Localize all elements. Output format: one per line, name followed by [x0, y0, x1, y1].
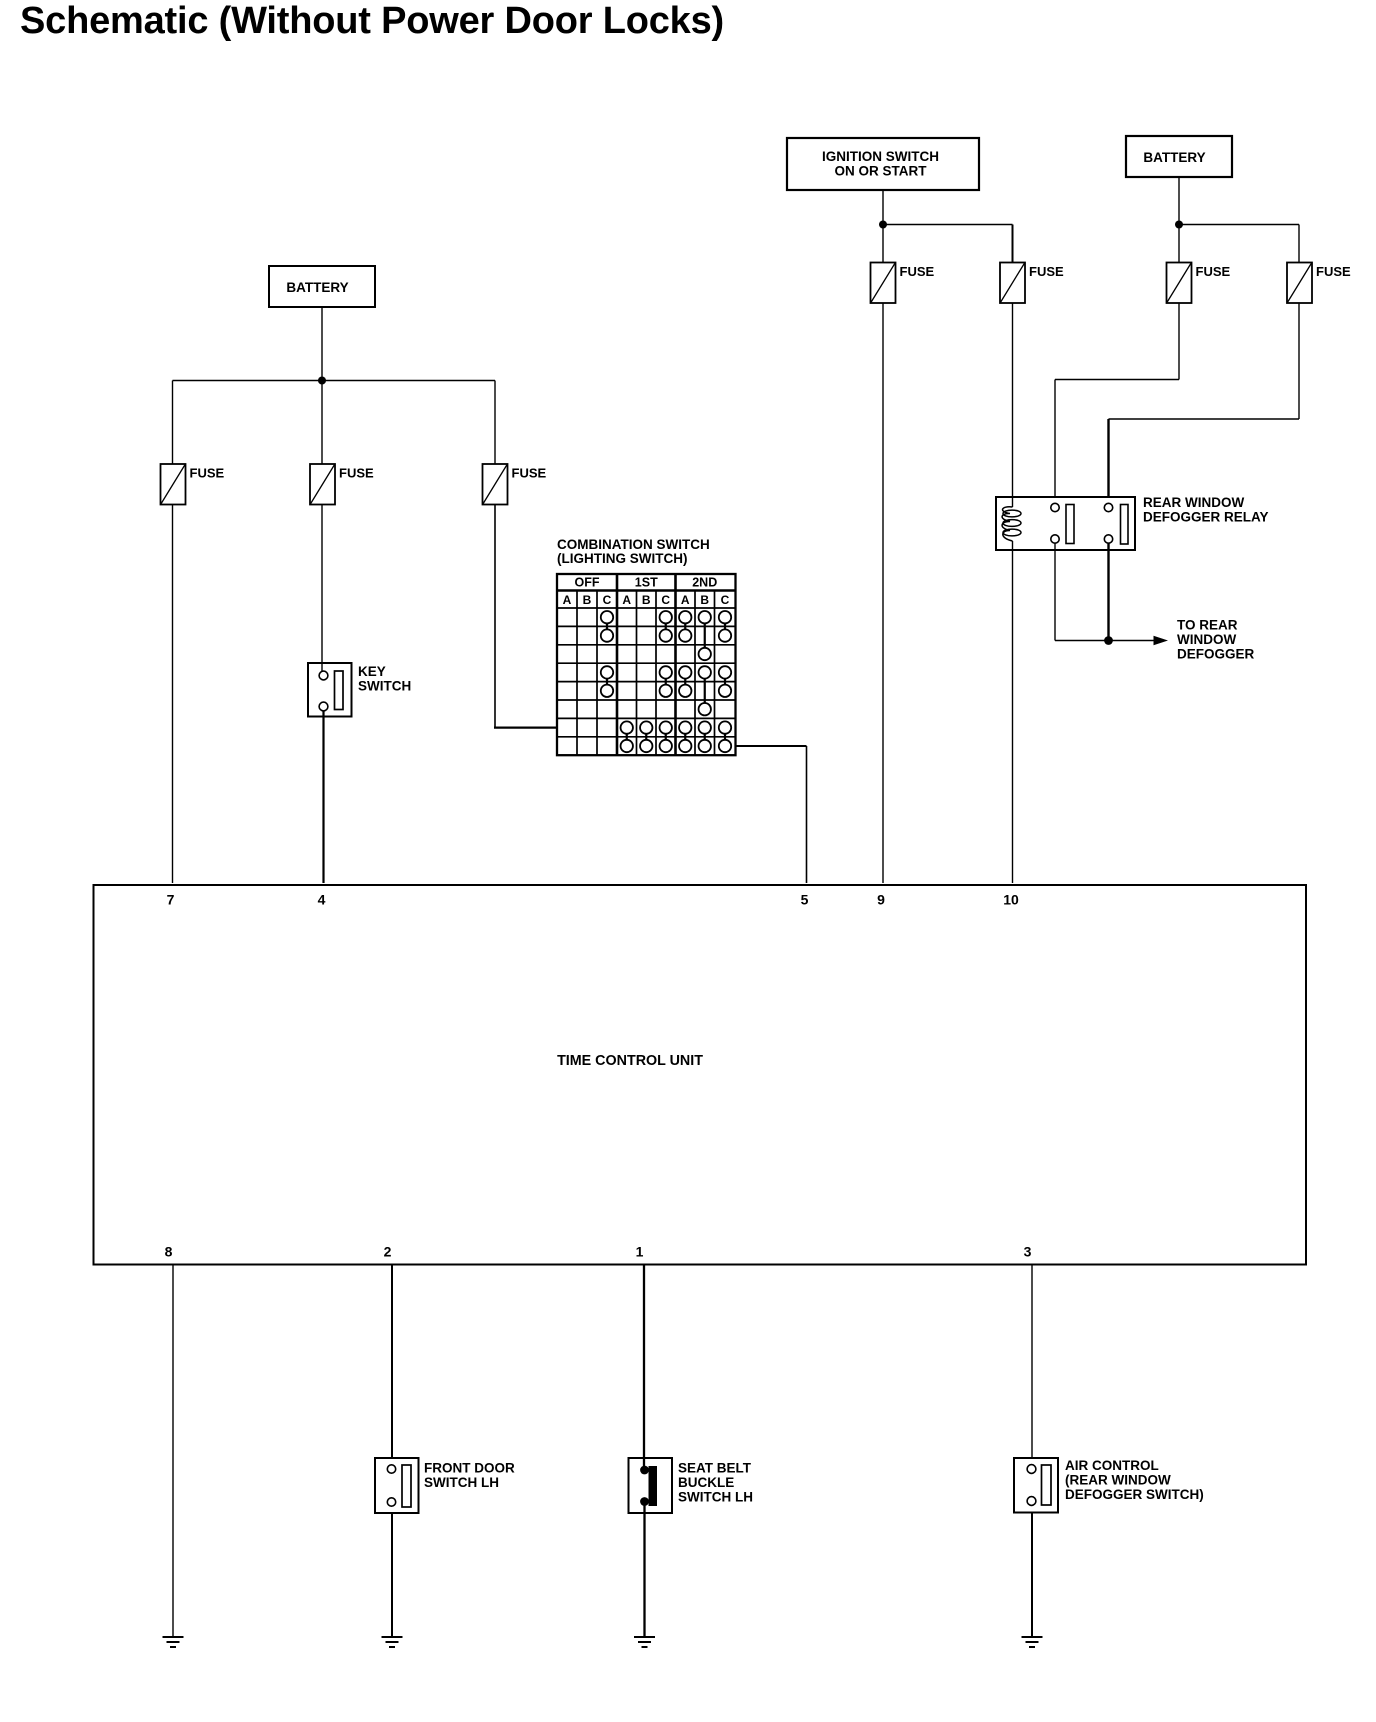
svg-text:C: C — [661, 593, 670, 607]
svg-text:FUSE: FUSE — [512, 466, 547, 481]
svg-text:(LIGHTING SWITCH): (LIGHTING SWITCH) — [557, 551, 687, 566]
svg-text:BATTERY: BATTERY — [1143, 150, 1205, 165]
svg-text:4: 4 — [318, 892, 326, 908]
svg-text:DEFOGGER SWITCH): DEFOGGER SWITCH) — [1065, 1487, 1204, 1502]
svg-text:TO REAR: TO REAR — [1177, 618, 1238, 633]
svg-text:3: 3 — [1024, 1243, 1032, 1259]
svg-text:SWITCH LH: SWITCH LH — [678, 1490, 753, 1505]
svg-text:BUCKLE: BUCKLE — [678, 1475, 734, 1490]
svg-text:OFF: OFF — [575, 576, 600, 590]
svg-text:9: 9 — [877, 892, 885, 908]
svg-text:DEFOGGER RELAY: DEFOGGER RELAY — [1143, 510, 1269, 525]
svg-text:IGNITION SWITCH: IGNITION SWITCH — [822, 149, 939, 164]
svg-text:KEY: KEY — [358, 664, 386, 679]
svg-text:8: 8 — [165, 1243, 173, 1259]
svg-text:FUSE: FUSE — [1316, 264, 1351, 279]
svg-text:FUSE: FUSE — [339, 466, 374, 481]
svg-text:TIME CONTROL UNIT: TIME CONTROL UNIT — [557, 1053, 703, 1069]
svg-text:DEFOGGER: DEFOGGER — [1177, 647, 1255, 662]
svg-text:2: 2 — [384, 1243, 392, 1259]
svg-text:SWITCH LH: SWITCH LH — [424, 1475, 499, 1490]
svg-text:A: A — [681, 593, 690, 607]
svg-text:5: 5 — [801, 892, 809, 908]
svg-text:FUSE: FUSE — [190, 466, 225, 481]
svg-text:B: B — [700, 593, 709, 607]
svg-text:1: 1 — [636, 1243, 644, 1259]
svg-text:C: C — [721, 593, 730, 607]
svg-text:FUSE: FUSE — [1029, 264, 1064, 279]
svg-text:Schematic (Without Power Door: Schematic (Without Power Door Locks) — [20, 0, 724, 42]
svg-text:(REAR WINDOW: (REAR WINDOW — [1065, 1473, 1171, 1488]
svg-text:REAR WINDOW: REAR WINDOW — [1143, 495, 1244, 510]
svg-text:SEAT BELT: SEAT BELT — [678, 1461, 752, 1476]
svg-text:A: A — [622, 593, 631, 607]
svg-text:A: A — [563, 593, 572, 607]
svg-text:COMBINATION SWITCH: COMBINATION SWITCH — [557, 537, 710, 552]
svg-text:2ND: 2ND — [692, 576, 717, 590]
svg-text:B: B — [642, 593, 651, 607]
svg-text:FUSE: FUSE — [1196, 264, 1231, 279]
svg-text:FRONT DOOR: FRONT DOOR — [424, 1461, 515, 1476]
svg-text:7: 7 — [167, 892, 175, 908]
svg-text:WINDOW: WINDOW — [1177, 632, 1236, 647]
svg-text:1ST: 1ST — [635, 576, 658, 590]
svg-text:AIR CONTROL: AIR CONTROL — [1065, 1458, 1159, 1473]
svg-text:10: 10 — [1003, 892, 1019, 908]
svg-text:BATTERY: BATTERY — [286, 280, 348, 295]
svg-text:B: B — [583, 593, 592, 607]
svg-text:ON OR START: ON OR START — [835, 164, 928, 179]
svg-text:SWITCH: SWITCH — [358, 679, 411, 694]
svg-text:C: C — [603, 593, 612, 607]
svg-text:FUSE: FUSE — [900, 264, 935, 279]
